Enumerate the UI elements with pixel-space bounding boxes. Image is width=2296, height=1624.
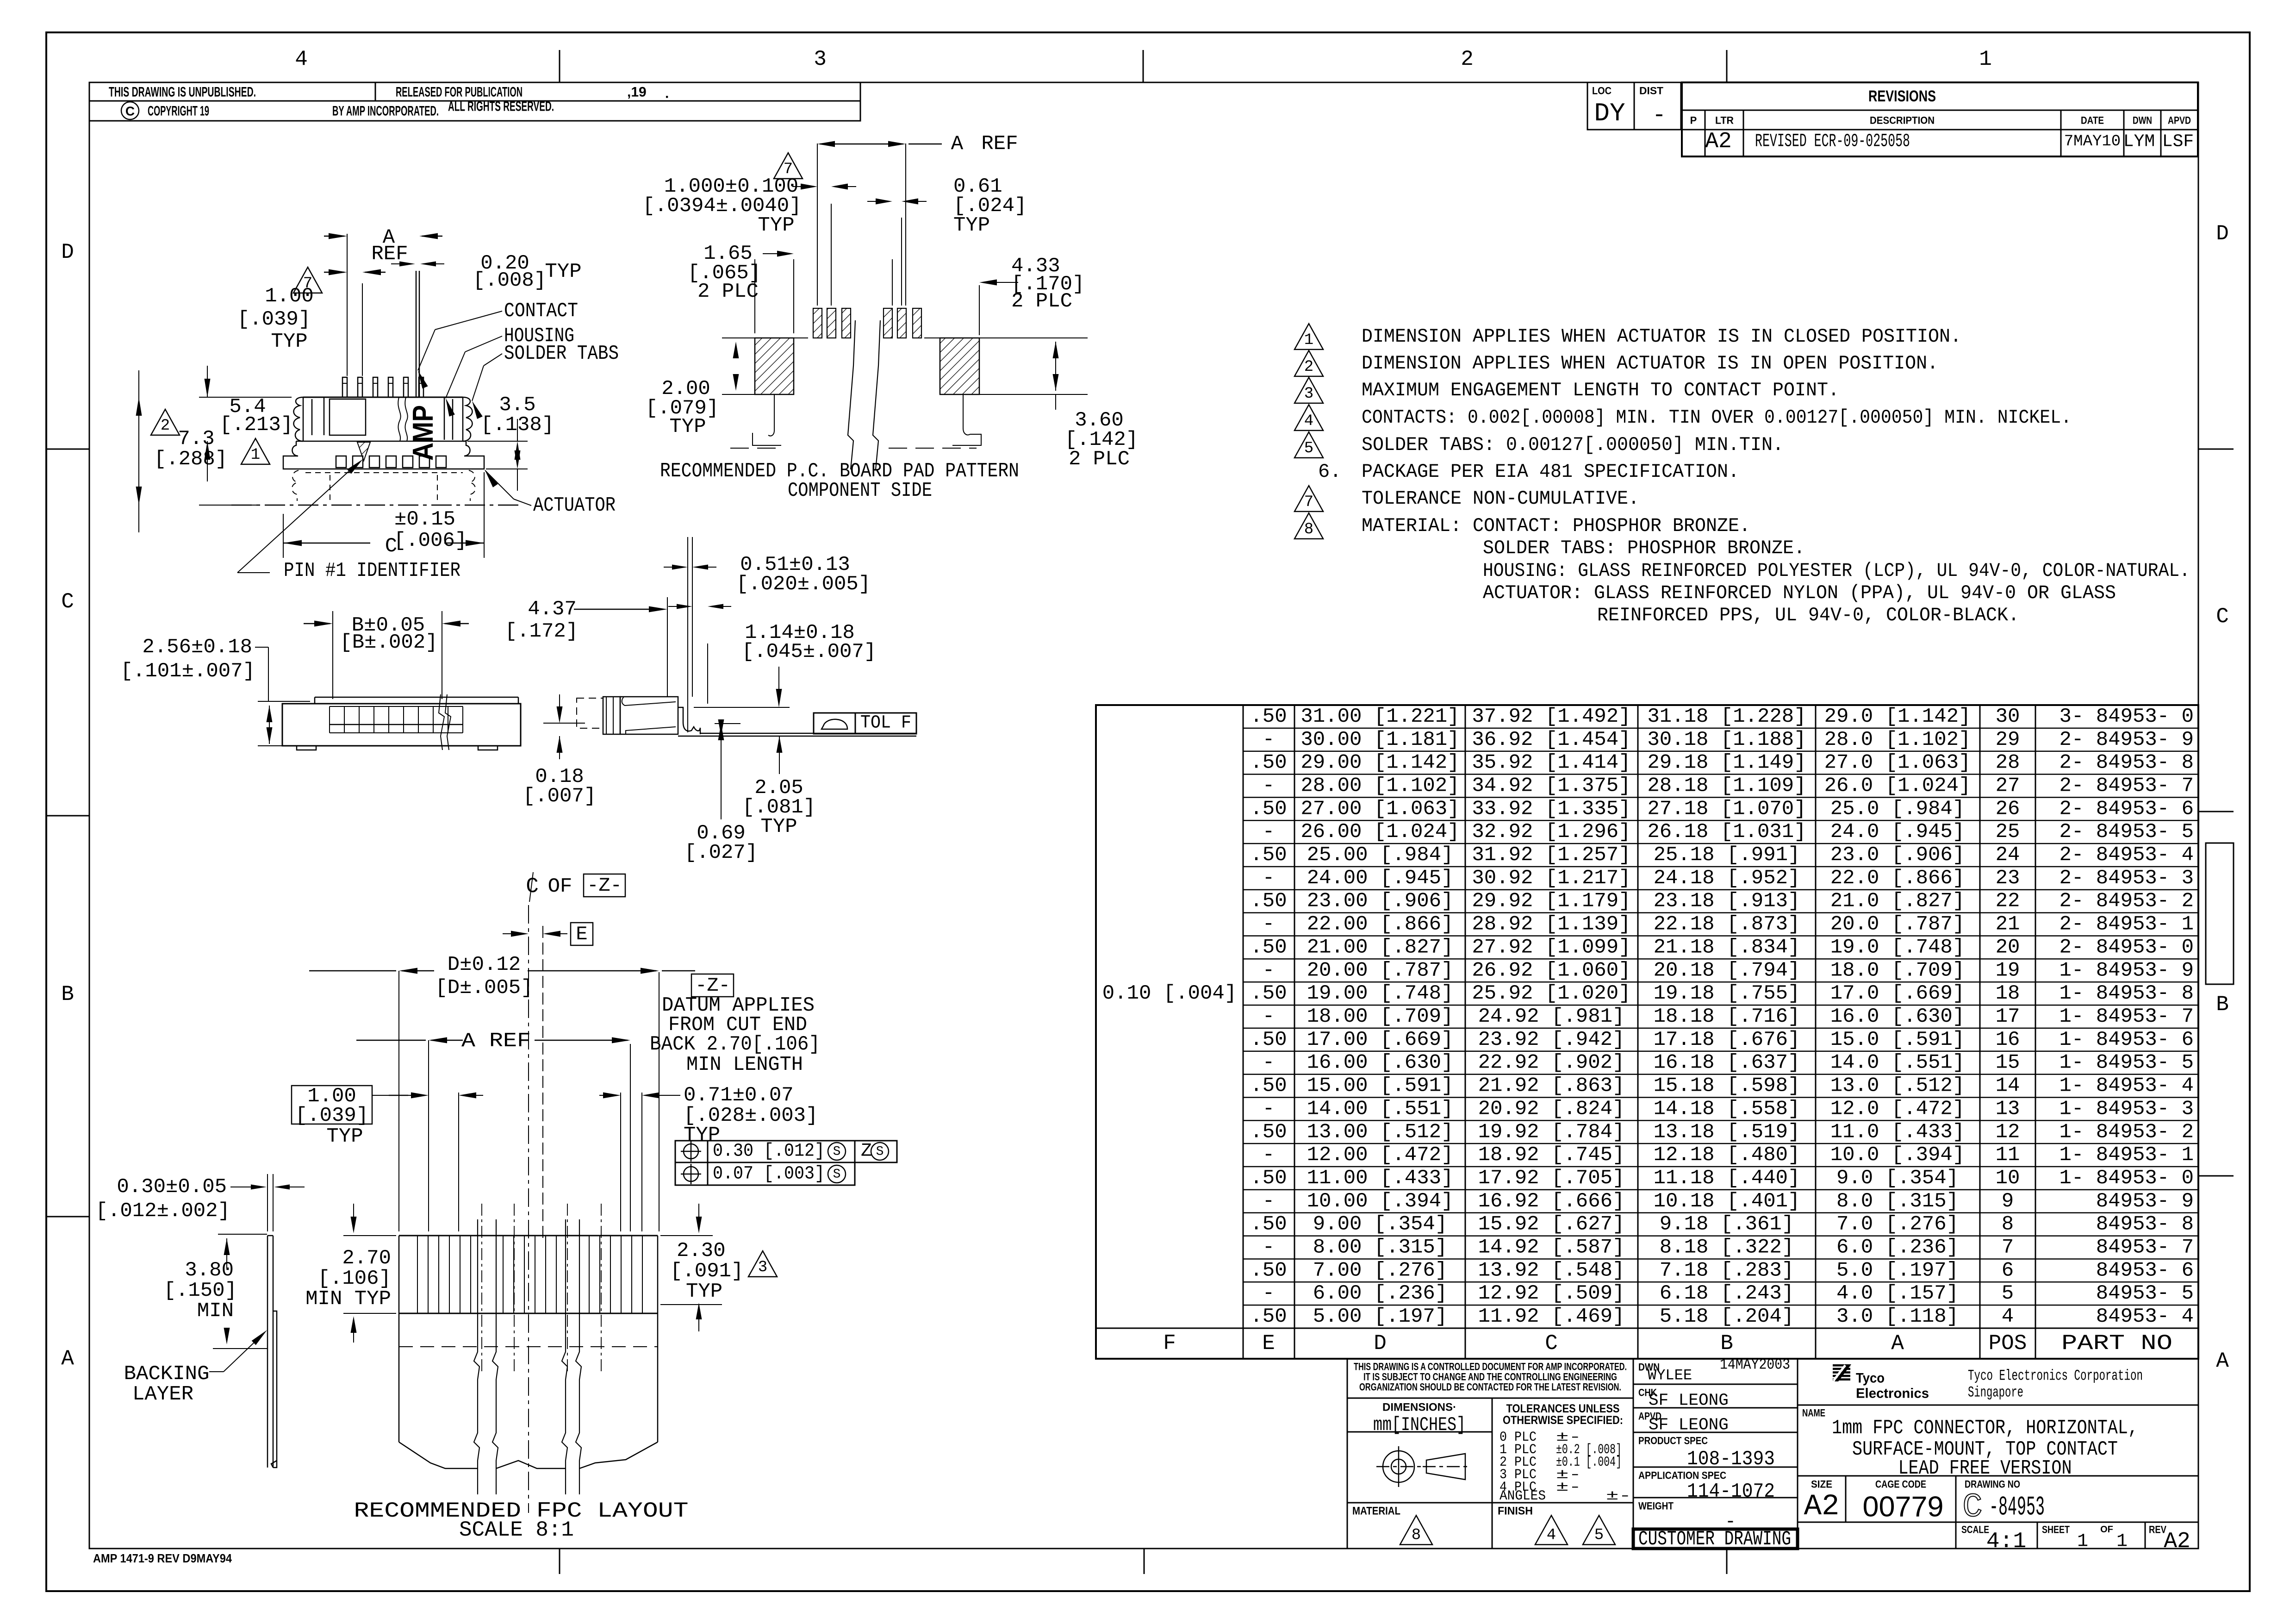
svg-text:9.18 [.361]: 9.18 [.361] <box>1660 1213 1794 1236</box>
svg-text:Tyco Electronics Corporation: Tyco Electronics Corporation <box>1968 1368 2143 1385</box>
svg-text:2- 84953- 4: 2- 84953- 4 <box>2060 843 2194 867</box>
svg-text:14MAY2003: 14MAY2003 <box>1720 1356 1790 1374</box>
svg-text:84953- 8: 84953- 8 <box>2096 1213 2194 1236</box>
view D break bars <box>474 1219 479 1494</box>
svg-text:21.00 [.827]: 21.00 [.827] <box>1307 936 1454 959</box>
svg-text:18.92 [.745]: 18.92 [.745] <box>1478 1143 1625 1167</box>
view A leader PIN #1 IDENTIFIER <box>237 465 355 573</box>
svg-text:3: 3 <box>758 1259 767 1276</box>
svg-text:20.18 [.794]: 20.18 [.794] <box>1654 959 1800 982</box>
svg-text:-: - <box>1263 1097 1275 1120</box>
view E dim 3.60 <box>979 394 1088 395</box>
svg-text:23.0 [.906]: 23.0 [.906] <box>1830 843 1965 867</box>
svg-text:COMPONENT SIDE: COMPONENT SIDE <box>788 479 932 502</box>
svg-text:Z: Z <box>861 1141 872 1162</box>
DIST box <box>1634 82 1681 130</box>
view C dim 2.05 <box>777 736 783 753</box>
svg-text:12.92 [.509]: 12.92 [.509] <box>1478 1282 1625 1305</box>
svg-text:2.30: 2.30 <box>677 1239 726 1262</box>
view D dim D± <box>398 971 399 1231</box>
svg-text:0.30±0.05: 0.30±0.05 <box>117 1175 227 1199</box>
svg-text:3.80: 3.80 <box>185 1259 234 1282</box>
svg-text:TYP: TYP <box>760 815 797 838</box>
view A tall contact lead <box>416 271 417 397</box>
svg-text:2: 2 <box>1304 358 1313 376</box>
svg-text:[.006]: [.006] <box>394 529 467 552</box>
svg-text:0.10 [.004]: 0.10 [.004] <box>1102 982 1237 1005</box>
svg-text:4: 4 <box>1304 412 1313 430</box>
svg-text:29.0 [1.142]: 29.0 [1.142] <box>1824 705 1971 728</box>
material box <box>1347 1502 1633 1504</box>
view C ext lines <box>687 537 688 732</box>
svg-text:26: 26 <box>1996 797 2020 820</box>
svg-text:25.00 [.984]: 25.00 [.984] <box>1307 843 1454 867</box>
svg-text:5.0 [.197]: 5.0 [.197] <box>1836 1259 1959 1282</box>
svg-text:-: - <box>1263 1143 1275 1167</box>
svg-text:84953- 9: 84953- 9 <box>2096 1190 2194 1213</box>
view D fpc body <box>399 1235 658 1237</box>
svg-text:24.92 [.981]: 24.92 [.981] <box>1478 1005 1625 1028</box>
view A triangle 7 <box>293 267 322 293</box>
svg-text:-: - <box>1263 1190 1275 1213</box>
svg-text:30.18 [1.188]: 30.18 [1.188] <box>1647 728 1806 751</box>
svg-text:1- 84953- 5: 1- 84953- 5 <box>2060 1051 2194 1074</box>
view D dim 2.30 TYP right <box>660 1235 713 1236</box>
svg-text:A: A <box>1891 1331 1904 1355</box>
svg-text:DESCRIPTION: DESCRIPTION <box>1870 115 1935 126</box>
svg-text:.50: .50 <box>1250 982 1287 1005</box>
svg-text:27.0 [1.063]: 27.0 [1.063] <box>1824 751 1971 775</box>
svg-text:6: 6 <box>2002 1259 2014 1282</box>
svg-text:ACTUATOR: ACTUATOR <box>533 494 616 517</box>
svg-text:2- 84953- 0: 2- 84953- 0 <box>2060 936 2194 959</box>
svg-text:25.92 [1.020]: 25.92 [1.020] <box>1472 982 1630 1005</box>
svg-text:-: - <box>1263 959 1275 982</box>
view B contact cells <box>330 706 463 707</box>
svg-text:1- 84953- 8: 1- 84953- 8 <box>2060 982 2194 1005</box>
svg-text:20: 20 <box>1996 936 2020 959</box>
svg-text:C: C <box>125 104 135 119</box>
view E large pads <box>755 338 794 394</box>
svg-text:17.18 [.676]: 17.18 [.676] <box>1654 1028 1800 1051</box>
view E dim A REF <box>817 141 835 147</box>
svg-text:REF: REF <box>981 132 1018 156</box>
svg-text:20.00 [.787]: 20.00 [.787] <box>1307 959 1454 982</box>
svg-text:MIN LENGTH: MIN LENGTH <box>686 1053 803 1076</box>
svg-text:8: 8 <box>2002 1213 2014 1236</box>
zone tick left <box>46 815 89 817</box>
svg-text:30.92 [1.217]: 30.92 [1.217] <box>1472 867 1630 890</box>
svg-text:PIN #1 IDENTIFIER: PIN #1 IDENTIFIER <box>284 559 460 582</box>
svg-text:21.18 [.834]: 21.18 [.834] <box>1654 936 1800 959</box>
svg-text:BACKING: BACKING <box>124 1362 210 1386</box>
svg-text:7MAY10: 7MAY10 <box>2064 133 2121 150</box>
view A leader HOUSING <box>465 336 502 352</box>
svg-text:35.92 [1.414]: 35.92 [1.414] <box>1472 751 1630 775</box>
svg-text:22.18 [.873]: 22.18 [.873] <box>1654 913 1800 936</box>
view A solder tab plate <box>283 441 484 469</box>
svg-text:1- 84953- 6: 1- 84953- 6 <box>2060 1028 2194 1051</box>
svg-text:DIMENSION APPLIES WHEN ACTUATO: DIMENSION APPLIES WHEN ACTUATOR IS IN OP… <box>1362 352 1938 375</box>
svg-text:D: D <box>1374 1331 1387 1355</box>
svg-text:16.00 [.630]: 16.00 [.630] <box>1307 1051 1454 1074</box>
view C ref line + arrow 1.14 <box>694 707 790 708</box>
zone tick right <box>2198 811 2234 812</box>
svg-text:-: - <box>1263 1236 1275 1259</box>
svg-text:31.18 [1.228]: 31.18 [1.228] <box>1647 705 1806 728</box>
svg-text:SHEET: SHEET <box>2042 1524 2070 1536</box>
svg-text:F: F <box>1163 1331 1176 1355</box>
view A triangle 1 <box>241 438 270 464</box>
svg-text:-: - <box>1263 728 1275 751</box>
svg-text:P: P <box>1690 115 1697 126</box>
svg-text:APPLICATION SPEC: APPLICATION SPEC <box>1638 1470 1726 1481</box>
svg-text:2- 84953- 8: 2- 84953- 8 <box>2060 751 2194 775</box>
svg-text:MIN TYP: MIN TYP <box>305 1287 391 1311</box>
svg-text:MAXIMUM ENGAGEMENT LENGTH TO C: MAXIMUM ENGAGEMENT LENGTH TO CONTACT POI… <box>1362 379 1839 401</box>
view A dim 7.3 <box>136 397 142 416</box>
svg-text:B: B <box>1720 1331 1733 1355</box>
svg-text:TYP: TYP <box>271 330 307 353</box>
svg-text:ACTUATOR: GLASS REINFORCED NYL: ACTUATOR: GLASS REINFORCED NYLON (PPA), … <box>1483 582 2116 604</box>
svg-text:[.020±.005]: [.020±.005] <box>736 573 871 596</box>
svg-text:25.18 [.991]: 25.18 [.991] <box>1654 843 1800 867</box>
view A dim 5.4 <box>199 397 292 398</box>
zone tick bottom <box>559 1549 560 1574</box>
svg-text:D: D <box>61 240 74 264</box>
svg-text:A2: A2 <box>1705 129 1732 154</box>
svg-text:22.0 [.866]: 22.0 [.866] <box>1830 867 1965 890</box>
svg-text:24.18 [.952]: 24.18 [.952] <box>1654 867 1800 890</box>
svg-text:11.0 [.433]: 11.0 [.433] <box>1830 1120 1965 1143</box>
svg-text:28.18 [1.109]: 28.18 [1.109] <box>1647 774 1806 797</box>
svg-text:2 PLC: 2 PLC <box>1011 290 1072 313</box>
view C TOL F frame <box>814 713 855 734</box>
svg-text:-: - <box>1263 867 1275 890</box>
svg-text:13.00 [.512]: 13.00 [.512] <box>1307 1120 1454 1143</box>
svg-text:11.18 [.440]: 11.18 [.440] <box>1654 1167 1800 1190</box>
svg-text:19.92 [.784]: 19.92 [.784] <box>1478 1120 1625 1143</box>
svg-text:25.0 [.984]: 25.0 [.984] <box>1830 797 1965 820</box>
copyright block <box>89 82 860 101</box>
svg-text:SIZE: SIZE <box>1811 1479 1832 1490</box>
svg-text:CUSTOMER DRAWING: CUSTOMER DRAWING <box>1638 1528 1791 1551</box>
view D extension stubs above band <box>481 1185 482 1204</box>
svg-text:15.0 [.591]: 15.0 [.591] <box>1830 1028 1965 1051</box>
svg-text:6.0 [.236]: 6.0 [.236] <box>1836 1236 1959 1259</box>
svg-text:A2: A2 <box>2164 1529 2190 1554</box>
svg-text:16: 16 <box>1996 1028 2020 1051</box>
view D -Z- datum note <box>691 974 734 997</box>
revisions table <box>1682 82 2198 156</box>
svg-text:4:1: 4:1 <box>1986 1529 2026 1554</box>
svg-text:ANGLES: ANGLES <box>1500 1488 1546 1504</box>
note 3 <box>1294 377 1323 403</box>
svg-text:FINISH: FINISH <box>1498 1505 1533 1518</box>
svg-text:B: B <box>61 982 74 1006</box>
svg-text:[.039]: [.039] <box>295 1104 368 1127</box>
svg-text:[D±.005]: [D±.005] <box>435 976 533 999</box>
svg-text:9.00 [.354]: 9.00 [.354] <box>1313 1213 1447 1236</box>
svg-text:5: 5 <box>1304 440 1313 457</box>
svg-text:84953- 6: 84953- 6 <box>2096 1259 2194 1282</box>
zone tick left <box>46 449 89 450</box>
svg-text:1- 84953- 7: 1- 84953- 7 <box>2060 1005 2194 1028</box>
svg-text:-: - <box>1263 1282 1275 1305</box>
view D dashed line <box>399 1346 658 1347</box>
title block <box>1347 1359 1348 1549</box>
svg-text:0.07 [.003]: 0.07 [.003] <box>713 1164 825 1185</box>
view A left scallop <box>294 397 304 441</box>
svg-text:12: 12 <box>1996 1120 2020 1143</box>
svg-text:10.00 [.394]: 10.00 [.394] <box>1307 1190 1454 1213</box>
svg-text:A REF: A REF <box>461 1030 531 1053</box>
svg-text:31.00 [1.221]: 31.00 [1.221] <box>1300 705 1459 728</box>
svg-text:Electronics: Electronics <box>1856 1386 1929 1401</box>
svg-text:8: 8 <box>1304 521 1313 538</box>
svg-text:A: A <box>61 1347 74 1371</box>
view A dim 0.20 TYP <box>399 262 415 267</box>
view E pad leads <box>753 394 781 445</box>
svg-text:23: 23 <box>1996 867 2020 890</box>
svg-text:MATERIAL: CONTACT: PHOSPHOR BR: MATERIAL: CONTACT: PHOSPHOR BRONZE. <box>1362 515 1750 537</box>
svg-text:37.92 [1.492]: 37.92 [1.492] <box>1472 705 1630 728</box>
svg-text:A: A <box>2216 1349 2229 1373</box>
view C dashed housing <box>577 698 603 728</box>
svg-text:7: 7 <box>1304 493 1313 511</box>
view E dim 0.61 <box>876 199 892 205</box>
view D centerlines <box>528 905 529 1513</box>
view D dim 0.71 <box>620 1093 621 1231</box>
svg-text:S: S <box>833 1168 841 1182</box>
svg-text:DWN: DWN <box>2133 115 2152 126</box>
view B dim B±0.05 <box>332 611 333 699</box>
zone tick top <box>1143 50 1144 82</box>
view C body <box>620 697 678 734</box>
svg-text:[.106]: [.106] <box>318 1267 391 1290</box>
svg-text:MATERIAL: MATERIAL <box>1352 1505 1400 1518</box>
svg-text:27.92 [1.099]: 27.92 [1.099] <box>1472 936 1630 959</box>
svg-text:28.92 [1.139]: 28.92 [1.139] <box>1472 913 1630 936</box>
svg-text:20.0 [.787]: 20.0 [.787] <box>1830 913 1965 936</box>
svg-text:.50: .50 <box>1250 1074 1287 1098</box>
svg-text:13.0 [.512]: 13.0 [.512] <box>1830 1074 1965 1098</box>
svg-text:3.0 [.118]: 3.0 [.118] <box>1836 1305 1959 1328</box>
svg-text:19: 19 <box>1996 959 2020 982</box>
view A right scallop <box>463 397 473 441</box>
svg-text:4: 4 <box>1547 1527 1556 1544</box>
svg-text:33.92 [1.335]: 33.92 [1.335] <box>1472 797 1630 820</box>
svg-text:5.00 [.197]: 5.00 [.197] <box>1313 1305 1447 1328</box>
svg-text:2: 2 <box>161 417 170 435</box>
svg-text:-: - <box>1263 913 1275 936</box>
svg-text:19.0 [.748]: 19.0 [.748] <box>1830 936 1965 959</box>
svg-text:0.71±0.07: 0.71±0.07 <box>684 1084 794 1107</box>
view A actuator ghost (open position) <box>292 470 299 501</box>
view A triangle 2 <box>151 409 180 435</box>
svg-text:11: 11 <box>1996 1143 2020 1167</box>
zone tick bottom <box>1726 1549 1728 1574</box>
svg-text:2 PLC: 2 PLC <box>1069 448 1130 471</box>
svg-text:SF LEONG: SF LEONG <box>1649 1416 1729 1435</box>
svg-text:21.92 [.863]: 21.92 [.863] <box>1478 1074 1625 1098</box>
svg-text:S: S <box>876 1145 884 1159</box>
svg-text:11.92 [.469]: 11.92 [.469] <box>1478 1305 1625 1328</box>
svg-text:24.00 [.945]: 24.00 [.945] <box>1307 867 1454 890</box>
svg-text:29.18 [1.149]: 29.18 [1.149] <box>1647 751 1806 775</box>
svg-text:±-: ±- <box>1556 1480 1581 1495</box>
svg-text:REVISIONS: REVISIONS <box>1868 87 1936 105</box>
svg-text:1- 84953- 3: 1- 84953- 3 <box>2060 1097 2194 1120</box>
svg-text:[.091]: [.091] <box>670 1260 743 1283</box>
view A actuator centerline <box>231 505 523 506</box>
view A leader SOLDER TABS <box>484 354 502 366</box>
view E triangle 7 <box>774 153 803 179</box>
svg-text:.50: .50 <box>1250 1167 1287 1190</box>
svg-text:[.288]: [.288] <box>154 448 227 471</box>
svg-text:LAYER: LAYER <box>132 1383 193 1406</box>
svg-text:31.92 [1.257]: 31.92 [1.257] <box>1472 843 1630 867</box>
svg-text:18.0 [.709]: 18.0 [.709] <box>1830 959 1965 982</box>
svg-text:A2: A2 <box>1804 1490 1840 1524</box>
svg-text:C: C <box>2216 605 2229 629</box>
svg-text:Singapore: Singapore <box>1968 1384 2023 1401</box>
svg-text:E: E <box>576 923 587 945</box>
view A dim A REF top <box>324 236 344 237</box>
svg-text:1- 84953- 0: 1- 84953- 0 <box>2060 1167 2194 1190</box>
svg-text:0.30 [.012]: 0.30 [.012] <box>713 1141 825 1162</box>
svg-text:SF LEONG: SF LEONG <box>1649 1391 1729 1410</box>
svg-text:114-1072: 114-1072 <box>1687 1480 1775 1503</box>
svg-text:DIST: DIST <box>1639 85 1664 97</box>
svg-text:S: S <box>833 1145 841 1159</box>
svg-text:-Z-: -Z- <box>587 874 622 897</box>
note 5 <box>1294 432 1323 458</box>
svg-text:A: A <box>951 132 964 156</box>
svg-text:17: 17 <box>1996 1005 2020 1028</box>
fold mark rectangle right margin <box>2206 843 2234 984</box>
svg-text:19.18 [.755]: 19.18 [.755] <box>1654 982 1800 1005</box>
svg-text:[.027]: [.027] <box>684 841 758 864</box>
svg-text:2.56±0.18: 2.56±0.18 <box>142 636 252 659</box>
svg-text:4: 4 <box>295 47 308 71</box>
view B break <box>439 694 444 750</box>
view D bottom edge left <box>399 1442 478 1468</box>
view A dim 1.00 TYP <box>324 272 344 273</box>
svg-text:[.172]: [.172] <box>505 620 578 643</box>
svg-text:CONTACTS: 0.002[.00008] MIN. T: CONTACTS: 0.002[.00008] MIN. TIN OVER 0.… <box>1362 406 2072 429</box>
svg-text:16.92 [.666]: 16.92 [.666] <box>1478 1190 1625 1213</box>
svg-text:26.00 [1.024]: 26.00 [1.024] <box>1300 820 1459 843</box>
svg-text:4: 4 <box>2002 1305 2014 1328</box>
view A dim 3.5 right <box>467 441 528 442</box>
svg-text:17.0 [.669]: 17.0 [.669] <box>1830 982 1965 1005</box>
svg-text:25: 25 <box>1996 820 2020 843</box>
svg-text:2- 84953- 2: 2- 84953- 2 <box>2060 890 2194 913</box>
svg-text:18: 18 <box>1996 982 2020 1005</box>
svg-text:14.92 [.587]: 14.92 [.587] <box>1478 1236 1625 1259</box>
view C dim 0.69 <box>715 723 740 724</box>
svg-text:TOL F: TOL F <box>860 713 911 734</box>
svg-text:SCALE 8:1: SCALE 8:1 <box>459 1518 574 1542</box>
svg-text:4.0 [.157]: 4.0 [.157] <box>1836 1282 1959 1305</box>
svg-text:1: 1 <box>1304 331 1313 349</box>
svg-text:6.00 [.236]: 6.00 [.236] <box>1313 1282 1447 1305</box>
view A inner wall left <box>311 399 313 435</box>
view D backing strip <box>267 1236 268 1468</box>
svg-text:[.007]: [.007] <box>523 785 596 808</box>
svg-text:32.92 [1.296]: 32.92 [1.296] <box>1472 820 1630 843</box>
svg-text:16.0 [.630]: 16.0 [.630] <box>1830 1005 1965 1028</box>
svg-text:ORGANIZATION SHOULD BE CONTACT: ORGANIZATION SHOULD BE CONTACTED FOR THE… <box>1359 1381 1621 1393</box>
svg-text:1- 84953- 1: 1- 84953- 1 <box>2060 1143 2194 1167</box>
svg-text:[.213]: [.213] <box>220 413 293 437</box>
svg-text:DATE: DATE <box>2081 115 2104 126</box>
svg-text:3: 3 <box>1304 385 1313 403</box>
svg-text:AMP: AMP <box>407 405 439 461</box>
view A pitch extension lines <box>347 234 348 376</box>
svg-text:.50: .50 <box>1250 1305 1287 1328</box>
svg-text:17.92 [.705]: 17.92 [.705] <box>1478 1167 1625 1190</box>
svg-text:PACKAGE PER EIA 481 SPECIFICAT: PACKAGE PER EIA 481 SPECIFICATION. <box>1362 461 1739 483</box>
svg-text:4.37: 4.37 <box>528 598 577 621</box>
svg-text:7: 7 <box>2002 1236 2014 1259</box>
svg-text:C: C <box>1962 1488 1982 1526</box>
svg-text:1- 84953- 9: 1- 84953- 9 <box>2060 959 2194 982</box>
svg-text:11.00 [.433]: 11.00 [.433] <box>1307 1167 1454 1190</box>
svg-text:5.18 [.204]: 5.18 [.204] <box>1660 1305 1794 1328</box>
svg-text:18.00 [.709]: 18.00 [.709] <box>1307 1005 1454 1028</box>
svg-text:.: . <box>665 86 669 101</box>
svg-text:[.138]: [.138] <box>481 413 554 437</box>
view A break lines <box>398 397 400 441</box>
svg-text:14: 14 <box>1996 1074 2020 1098</box>
view C fpc strip <box>700 733 916 734</box>
view A leader ACTUATOR <box>514 499 531 506</box>
svg-text:ALL RIGHTS RESERVED.: ALL RIGHTS RESERVED. <box>448 99 554 114</box>
svg-text:29: 29 <box>1996 728 2020 751</box>
svg-text:7.3: 7.3 <box>178 427 214 450</box>
svg-text:.50: .50 <box>1250 936 1287 959</box>
view A contact pins <box>342 377 347 397</box>
svg-text:84953- 7: 84953- 7 <box>2096 1236 2194 1259</box>
svg-text:9.0 [.354]: 9.0 [.354] <box>1836 1167 1959 1190</box>
svg-text:LYM: LYM <box>2123 132 2155 152</box>
view B feet <box>297 746 316 750</box>
view E small pads <box>813 308 822 338</box>
svg-text:00779: 00779 <box>1863 1491 1944 1523</box>
svg-text:5: 5 <box>2002 1282 2014 1305</box>
svg-text:1: 1 <box>251 446 260 464</box>
svg-text:24.0 [.945]: 24.0 [.945] <box>1830 820 1965 843</box>
svg-text:3- 84953- 0: 3- 84953- 0 <box>2060 705 2194 728</box>
svg-text:13.18 [.519]: 13.18 [.519] <box>1654 1120 1800 1143</box>
svg-text:8.18 [.322]: 8.18 [.322] <box>1660 1236 1794 1259</box>
svg-text:29.00 [1.142]: 29.00 [1.142] <box>1300 751 1459 775</box>
svg-text:WYLEE: WYLEE <box>1648 1367 1692 1384</box>
svg-text:3: 3 <box>814 47 827 71</box>
view B top lip <box>315 697 518 698</box>
svg-text:-: - <box>1263 1005 1275 1028</box>
svg-text:-: - <box>1263 774 1275 797</box>
svg-text:12.0 [.472]: 12.0 [.472] <box>1830 1097 1965 1120</box>
svg-text:30.00 [1.181]: 30.00 [1.181] <box>1300 728 1459 751</box>
svg-text:26.18 [1.031]: 26.18 [1.031] <box>1647 820 1806 843</box>
svg-text:B: B <box>2216 993 2229 1017</box>
svg-text:13.92 [.548]: 13.92 [.548] <box>1478 1259 1625 1282</box>
svg-text:1.00: 1.00 <box>265 285 314 308</box>
svg-text:RELEASED FOR PUBLICATION: RELEASED FOR PUBLICATION <box>396 85 523 100</box>
